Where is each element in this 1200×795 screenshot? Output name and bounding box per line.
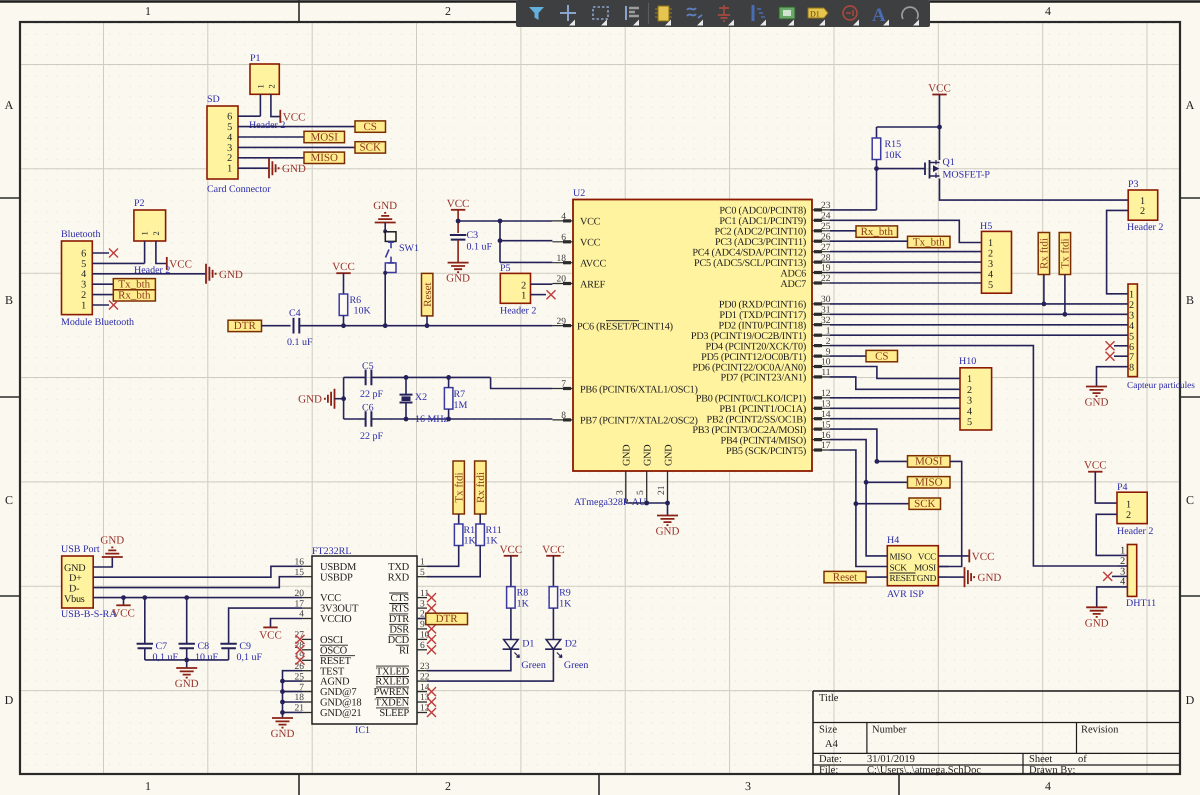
svg-text:0,1 uF: 0,1 uF xyxy=(237,652,263,663)
no-connect IC1 right pin xyxy=(427,645,436,654)
port MOSI xyxy=(908,456,951,468)
svg-text:Header 2: Header 2 xyxy=(1117,526,1153,537)
wire R11 to RXD xyxy=(427,546,480,577)
wire R8 to D1 xyxy=(510,608,512,639)
capacitor C8 xyxy=(186,598,188,660)
svg-text:22 pF: 22 pF xyxy=(360,431,384,442)
svg-text:P2: P2 xyxy=(134,198,145,209)
svg-text:2: 2 xyxy=(1120,556,1125,567)
svg-text:PWREN: PWREN xyxy=(374,687,410,698)
svg-text:3: 3 xyxy=(1129,311,1134,322)
svg-text:VCC: VCC xyxy=(928,83,951,95)
wire VCC rail to U2 pin4 xyxy=(458,220,552,222)
svg-text:VCC: VCC xyxy=(112,607,135,619)
wire Reset to H4 xyxy=(866,576,877,578)
svg-text:DTR: DTR xyxy=(234,320,257,332)
wire SD pin3 to SCK xyxy=(238,146,355,148)
connector P3 xyxy=(1127,179,1163,233)
svg-text:PB2 (PCINT2/SS/OC1B): PB2 (PCINT2/SS/OC1B) xyxy=(707,415,806,426)
svg-text:13: 13 xyxy=(821,400,831,410)
svg-text:PC1 (ADC1/PCINT9): PC1 (ADC1/PCINT9) xyxy=(719,216,806,227)
svg-text:24: 24 xyxy=(821,212,831,222)
sensor DHT11 xyxy=(1120,545,1156,610)
no-connect BT pin6 xyxy=(109,249,118,258)
svg-text:23: 23 xyxy=(821,201,831,211)
toolbar icon filter xyxy=(529,7,544,20)
svg-text:5: 5 xyxy=(227,122,232,133)
svg-text:Bluetooth: Bluetooth xyxy=(61,229,100,240)
junction (SW1) xyxy=(383,323,388,328)
port Rx ftdi (vertical) xyxy=(1038,233,1051,275)
svg-text:11: 11 xyxy=(821,368,830,378)
wire to U2 pin6 xyxy=(500,240,552,242)
wire SD pin5 to CS xyxy=(238,126,355,128)
svg-text:RTS: RTS xyxy=(391,604,409,615)
capacitor C9 xyxy=(229,608,302,660)
svg-text:D1: D1 xyxy=(810,10,820,19)
svg-text:GND: GND xyxy=(219,269,243,281)
svg-text:8: 8 xyxy=(561,411,566,421)
svg-text:VCC: VCC xyxy=(332,261,355,273)
svg-text:VCC: VCC xyxy=(1084,460,1107,472)
svg-text:D+: D+ xyxy=(69,573,82,584)
svg-text:1: 1 xyxy=(256,85,266,89)
svg-text:USBDP: USBDP xyxy=(320,572,353,583)
svg-text:VCC: VCC xyxy=(918,552,936,562)
connector P2 xyxy=(134,198,166,241)
port CS xyxy=(355,121,386,133)
port SCK xyxy=(355,142,386,154)
toolbar icon bus-entry xyxy=(753,5,766,26)
svg-text:25: 25 xyxy=(821,222,831,232)
port Tx ftdi (vertical) xyxy=(1059,233,1072,275)
svg-text:1: 1 xyxy=(81,300,86,311)
wire Rx ftdi to R11 xyxy=(479,514,481,524)
wire MISO row xyxy=(866,481,907,483)
svg-text:MOSI: MOSI xyxy=(310,131,338,143)
wire PB0 to H10 pin3 xyxy=(830,397,960,399)
no-connect IC1 right pin xyxy=(427,698,436,707)
wire PC4 to H5 pin2 xyxy=(830,251,982,253)
ground (SW1) xyxy=(373,200,397,223)
svg-text:AREF: AREF xyxy=(580,279,606,290)
wire X2 stubs xyxy=(405,377,407,419)
svg-text:28: 28 xyxy=(821,253,831,263)
wire VCC to drain node xyxy=(939,95,941,161)
toolbar icon select-rect xyxy=(593,7,608,26)
svg-text:RESET: RESET xyxy=(890,573,917,583)
svg-text:3: 3 xyxy=(615,490,625,495)
svg-text:Date:: Date: xyxy=(819,754,842,765)
svg-text:Tx ftdi: Tx ftdi xyxy=(454,472,466,502)
svg-text:GND: GND xyxy=(622,445,633,466)
svg-text:OSCI: OSCI xyxy=(320,635,344,646)
power port VCC (C3) xyxy=(447,198,470,210)
wire PC2 to Rx_bth xyxy=(830,230,856,232)
svg-text:Drawn By:: Drawn By: xyxy=(1029,765,1075,776)
svg-text:CS: CS xyxy=(363,121,376,133)
svg-text:R15: R15 xyxy=(885,139,902,150)
no-connect IC1 right pin xyxy=(427,604,436,613)
capacitor C5 xyxy=(360,361,384,400)
svg-text:Rx ftdi: Rx ftdi xyxy=(475,472,487,503)
svg-text:5: 5 xyxy=(1129,331,1134,342)
svg-text:1: 1 xyxy=(1140,196,1145,207)
port CS (PD5) xyxy=(866,350,898,362)
svg-text:C5: C5 xyxy=(362,361,374,372)
svg-text:R6: R6 xyxy=(350,295,362,306)
wire BT pin4 to GND xyxy=(92,273,205,275)
svg-text:PB3 (PCINT3/OC2A/MOSI): PB3 (PCINT3/OC2A/MOSI) xyxy=(692,425,806,436)
ground (sensor) xyxy=(1085,387,1109,409)
power port VCC (P2) xyxy=(167,257,192,271)
port Tx_bth (H5) xyxy=(908,236,951,248)
port Reset (vertical) xyxy=(422,273,435,316)
U2 left pins xyxy=(553,212,574,421)
wire PC3 to Tx_bth xyxy=(830,240,908,242)
connector P4 xyxy=(1117,482,1153,537)
svg-text:4: 4 xyxy=(561,212,566,222)
wire MOSI to H4 xyxy=(938,461,961,566)
connector USB Port xyxy=(61,544,117,620)
no-connect IC1 right pin xyxy=(427,624,436,633)
toolbar icon place-part xyxy=(655,6,672,26)
svg-text:1K: 1K xyxy=(517,599,530,610)
svg-text:Module Bluetooth: Module Bluetooth xyxy=(61,317,134,328)
svg-text:C3: C3 xyxy=(467,230,479,241)
svg-text:1K: 1K xyxy=(486,536,499,547)
wire P4 pin2 to DHT11 pin1 xyxy=(1096,514,1127,555)
transistor Q1 MOSFET-P xyxy=(925,157,990,181)
wire ADC7 to H5 pin5 xyxy=(830,282,982,284)
svg-text:A: A xyxy=(872,5,886,26)
svg-text:27: 27 xyxy=(821,243,831,253)
svg-text:GND: GND xyxy=(373,200,397,212)
resistor R8 xyxy=(507,587,530,610)
wire VCC to P4 pin1 xyxy=(1095,472,1117,503)
svg-text:PB0 (PCINT0/CLKO/ICP1): PB0 (PCINT0/CLKO/ICP1) xyxy=(696,394,806,405)
sensor pin7 stub xyxy=(1114,355,1128,357)
svg-text:CTS: CTS xyxy=(390,593,409,604)
wire xtal bottom rail xyxy=(344,418,553,420)
svg-text:B: B xyxy=(5,293,13,307)
svg-text:D2: D2 xyxy=(565,639,577,650)
svg-text:1: 1 xyxy=(145,4,151,18)
connector H4 AVR ISP xyxy=(887,535,938,600)
svg-text:18: 18 xyxy=(557,254,567,264)
svg-text:AVR ISP: AVR ISP xyxy=(887,589,924,600)
ground (DHT11) xyxy=(1085,607,1109,629)
LED D2 xyxy=(545,639,588,672)
sheet frame xyxy=(0,0,1200,2)
svg-text:PB7 (PCINT7/XTAL2/OSC2): PB7 (PCINT7/XTAL2/OSC2) xyxy=(580,416,698,427)
toolbar icon net-label xyxy=(808,8,828,26)
wire BT pin2 xyxy=(92,294,113,296)
capacitor C3 xyxy=(450,230,493,253)
svg-text:Sheet: Sheet xyxy=(1029,754,1052,765)
svg-text:Tx_bth: Tx_bth xyxy=(118,278,150,290)
svg-text:3: 3 xyxy=(967,396,972,407)
svg-text:2: 2 xyxy=(227,153,232,164)
svg-text:USBDM: USBDM xyxy=(320,562,357,573)
wire PD4 to DHT11 pin2 xyxy=(830,346,1118,566)
svg-text:2: 2 xyxy=(445,4,451,18)
svg-text:VCC: VCC xyxy=(169,259,192,271)
svg-text:VCC: VCC xyxy=(259,629,282,641)
svg-text:B: B xyxy=(1186,293,1194,307)
toolbar icon power-port xyxy=(718,5,734,26)
svg-text:Number: Number xyxy=(872,725,907,736)
svg-text:1: 1 xyxy=(521,291,526,302)
connector Module Bluetooth xyxy=(61,229,134,328)
svg-text:TXLED: TXLED xyxy=(376,666,410,677)
no-connect P5 pin1 xyxy=(547,290,556,299)
power port VCC (SD) xyxy=(280,110,305,124)
connector H5 xyxy=(980,221,1012,293)
wire PD1 to sensor pin3 xyxy=(830,313,1128,315)
ground (SD) xyxy=(269,158,306,178)
svg-text:2: 2 xyxy=(988,249,993,260)
svg-text:VCC: VCC xyxy=(283,111,306,123)
svg-text:1K: 1K xyxy=(559,599,572,610)
no-connect IC1 right pin xyxy=(427,593,436,602)
svg-text:4: 4 xyxy=(988,269,993,280)
svg-text:VCCIO: VCCIO xyxy=(320,614,352,625)
IC1 left pins xyxy=(295,558,313,714)
svg-text:GND: GND xyxy=(1085,397,1109,409)
svg-text:MOSI: MOSI xyxy=(915,456,943,468)
toolbar icon align xyxy=(626,6,639,26)
svg-text:2: 2 xyxy=(81,290,86,301)
no-connect sensor pin7 xyxy=(1106,352,1115,361)
wire U2 ground bus xyxy=(626,502,668,504)
port SCK xyxy=(909,498,941,510)
power port VCC (VCCIO) xyxy=(259,627,282,641)
power port VCC (Vbus) xyxy=(123,598,125,605)
wire rail to GND xyxy=(186,660,188,668)
svg-text:0.1 uF: 0.1 uF xyxy=(467,242,493,253)
svg-text:10K: 10K xyxy=(885,150,903,161)
svg-text:RXLED: RXLED xyxy=(375,677,409,688)
wire VCC branch down xyxy=(499,221,501,262)
svg-text:VCC: VCC xyxy=(542,544,565,556)
wire PD2 to sensor pin4 xyxy=(830,324,1128,326)
wire R10 to TXD xyxy=(427,546,459,567)
wire VCCIO to VCC xyxy=(271,619,303,628)
svg-text:1M: 1M xyxy=(454,400,468,411)
svg-text:VCC: VCC xyxy=(972,551,995,563)
svg-text:16: 16 xyxy=(821,431,831,441)
svg-text:A: A xyxy=(5,98,14,112)
resistor R7 xyxy=(444,388,467,411)
H4 pin stubs xyxy=(877,556,949,577)
svg-text:VCC: VCC xyxy=(580,238,601,249)
svg-text:GND: GND xyxy=(298,394,322,406)
svg-text:A: A xyxy=(1186,98,1195,112)
svg-text:Vbus: Vbus xyxy=(64,594,85,605)
svg-text:GND: GND xyxy=(1085,617,1109,629)
DHT11 pin2 stub (net from PD4 drawn earlier) xyxy=(1118,565,1127,567)
sensor pin6 stub xyxy=(1114,345,1128,347)
capacitor C6 xyxy=(360,403,384,443)
svg-text:Rx_bth: Rx_bth xyxy=(118,290,151,302)
svg-text:SCK: SCK xyxy=(359,142,380,154)
svg-text:1K: 1K xyxy=(464,536,477,547)
svg-text:1: 1 xyxy=(227,164,232,175)
svg-text:3: 3 xyxy=(227,143,232,154)
svg-text:R9: R9 xyxy=(559,588,571,599)
svg-text:10: 10 xyxy=(821,358,831,368)
svg-text:GND@18: GND@18 xyxy=(320,698,361,709)
wire MOSI row xyxy=(877,460,908,462)
wire P2 pin2 to VCC xyxy=(156,241,166,264)
wire R6 to reset net xyxy=(343,316,345,326)
svg-text:GND: GND xyxy=(175,678,199,690)
wire USB D- to USBDP xyxy=(93,577,302,588)
svg-text:4: 4 xyxy=(967,406,972,417)
wire ADC6 to H5 pin4 xyxy=(830,272,982,274)
wire PC5 to H5 pin3 xyxy=(830,261,982,263)
wire PB4 to MISO net xyxy=(830,440,866,483)
wire R7 stubs xyxy=(448,377,450,419)
svg-text:Q1: Q1 xyxy=(943,157,955,168)
svg-text:0.1 uF: 0.1 uF xyxy=(287,337,313,348)
svg-text:Rx ftdi: Rx ftdi xyxy=(1039,238,1051,269)
svg-text:Reset: Reset xyxy=(422,282,434,306)
svg-text:4: 4 xyxy=(1045,779,1051,793)
svg-text:DTR: DTR xyxy=(436,613,459,625)
svg-text:AVCC: AVCC xyxy=(580,259,606,270)
svg-text:C: C xyxy=(1186,493,1194,507)
svg-text:A4: A4 xyxy=(825,739,839,750)
no-connect OSCO xyxy=(296,645,305,654)
svg-text:30: 30 xyxy=(821,295,831,305)
wire capacitor ground rail xyxy=(145,659,229,661)
svg-text:31/01/2019: 31/01/2019 xyxy=(867,754,915,765)
svg-text:USB Port: USB Port xyxy=(61,544,100,555)
port DTR (IC1) xyxy=(417,618,426,620)
svg-text:TXD: TXD xyxy=(388,562,409,573)
svg-text:GND: GND xyxy=(656,526,680,538)
svg-text:SCK: SCK xyxy=(890,562,908,572)
svg-text:17: 17 xyxy=(821,441,831,451)
resistor R11 xyxy=(476,524,502,547)
svg-text:PD1 (TXD/PCINT17): PD1 (TXD/PCINT17) xyxy=(719,310,806,321)
wire BT pin3 xyxy=(92,283,113,285)
svg-text:3: 3 xyxy=(745,779,751,793)
ground (C8) xyxy=(175,668,199,690)
svg-text:PD2 (INT0/PCINT18): PD2 (INT0/PCINT18) xyxy=(719,321,806,332)
svg-text:4: 4 xyxy=(227,132,232,143)
LED D1 xyxy=(503,639,546,672)
svg-text:1: 1 xyxy=(140,232,150,236)
wire PB3 to MOSI net xyxy=(830,429,877,461)
svg-text:2: 2 xyxy=(967,385,972,396)
wire GND to SW1 xyxy=(384,223,386,233)
svg-text:VCC: VCC xyxy=(320,593,341,604)
no-connect IC1 right pin xyxy=(427,687,436,696)
svg-text:MISO: MISO xyxy=(915,477,943,489)
wire P3 pin2 to sensor pin1 xyxy=(1107,210,1128,293)
svg-text:7: 7 xyxy=(1129,352,1134,363)
power port VCC (H4) xyxy=(969,549,994,563)
svg-text:GND: GND xyxy=(663,445,674,466)
svg-text:H5: H5 xyxy=(980,221,992,232)
port Tx ftdi (IC1) xyxy=(453,461,466,514)
connector SD Card xyxy=(207,94,271,195)
svg-text:VCC: VCC xyxy=(500,544,523,556)
svg-text:GND: GND xyxy=(446,273,470,285)
port Rx_bth (H5) xyxy=(856,226,898,238)
svg-text:P4: P4 xyxy=(1117,482,1128,493)
svg-text:PC0 (ADC0/PCINT8): PC0 (ADC0/PCINT8) xyxy=(719,206,806,217)
svg-text:Card Connector: Card Connector xyxy=(207,184,271,195)
svg-text:21: 21 xyxy=(657,485,667,495)
svg-text:DHT11: DHT11 xyxy=(1126,598,1156,609)
svg-text:Header 2: Header 2 xyxy=(1127,222,1163,233)
svg-text:USB-B-S-RA: USB-B-S-RA xyxy=(61,609,117,620)
svg-text:GND: GND xyxy=(271,728,295,740)
DHT11 pin3 stub xyxy=(1112,575,1127,577)
svg-text:PD4 (PCINT20/XCK/T0): PD4 (PCINT20/XCK/T0) xyxy=(705,341,806,352)
svg-text:PD0 (RXD/PCINT16): PD0 (RXD/PCINT16) xyxy=(719,300,806,311)
svg-text:PB6 (PCINT6/XTAL1/OSC1): PB6 (PCINT6/XTAL1/OSC1) xyxy=(580,384,698,395)
svg-text:GND: GND xyxy=(643,445,654,466)
svg-text:P5: P5 xyxy=(500,263,511,274)
wire SD pin1 to GND xyxy=(238,167,269,169)
svg-text:2: 2 xyxy=(267,85,277,89)
svg-text:6: 6 xyxy=(561,233,566,243)
wire Reset port stub xyxy=(426,316,428,326)
svg-text:X2: X2 xyxy=(415,392,427,403)
svg-text:MOSFET-P: MOSFET-P xyxy=(943,170,991,181)
svg-text:1: 1 xyxy=(988,238,993,249)
svg-text:15: 15 xyxy=(821,420,831,430)
svg-text:ADC7: ADC7 xyxy=(780,279,806,290)
wire USB GND xyxy=(93,558,112,568)
wire to ground xyxy=(667,503,669,515)
svg-text:2: 2 xyxy=(1126,510,1131,521)
svg-text:C4: C4 xyxy=(289,308,301,319)
port Rx ftdi (IC1) xyxy=(475,461,487,514)
svg-text:4: 4 xyxy=(1045,4,1051,18)
toolbar icon place-wire xyxy=(687,8,703,26)
svg-text:PD3 (PCINT19/OC2B/INT1): PD3 (PCINT19/OC2B/INT1) xyxy=(691,331,806,342)
wire Rx ftdi stub xyxy=(1043,275,1045,304)
svg-text:Capteur particules: Capteur particules xyxy=(1127,381,1195,391)
svg-text:Tx_bth: Tx_bth xyxy=(913,236,945,248)
svg-text:6: 6 xyxy=(227,112,232,123)
wire D2 to RXLED xyxy=(427,649,553,681)
svg-text:R8: R8 xyxy=(517,588,529,599)
svg-text:GND: GND xyxy=(978,572,1002,584)
svg-text:GND: GND xyxy=(100,535,124,547)
wire H4 VCC xyxy=(949,555,969,557)
port Tx_bth xyxy=(113,278,155,290)
wire PB5 to SCK net xyxy=(830,450,856,504)
svg-text:PC6 (RESET/PCINT14): PC6 (RESET/PCINT14) xyxy=(577,321,673,332)
svg-text:P1: P1 xyxy=(250,53,261,64)
svg-text:Header 2: Header 2 xyxy=(500,306,536,317)
svg-text:32: 32 xyxy=(821,316,831,326)
resistor R15 xyxy=(872,138,902,161)
wire BT pin6 xyxy=(92,252,109,254)
svg-text:File:: File: xyxy=(819,765,838,776)
U2 right pins xyxy=(812,201,831,451)
wire VCC to C3 xyxy=(457,210,459,233)
no-connect BT pin1 xyxy=(109,301,118,310)
wire P5 pin1 xyxy=(531,294,547,296)
